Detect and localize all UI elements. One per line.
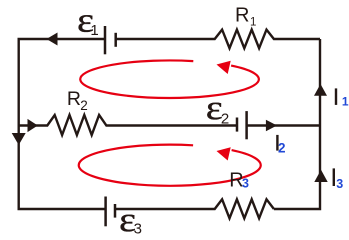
svg-text:3: 3: [336, 177, 343, 191]
svg-text:1: 1: [342, 95, 349, 109]
svg-text:R: R: [235, 4, 249, 26]
svg-text:1: 1: [250, 17, 256, 29]
svg-text:3: 3: [134, 221, 142, 238]
svg-text:2: 2: [278, 140, 286, 155]
svg-text:2: 2: [80, 98, 88, 113]
svg-text:3: 3: [242, 177, 249, 191]
svg-text:R: R: [67, 88, 81, 110]
svg-text:2: 2: [221, 111, 229, 128]
svg-text:1: 1: [90, 22, 98, 39]
